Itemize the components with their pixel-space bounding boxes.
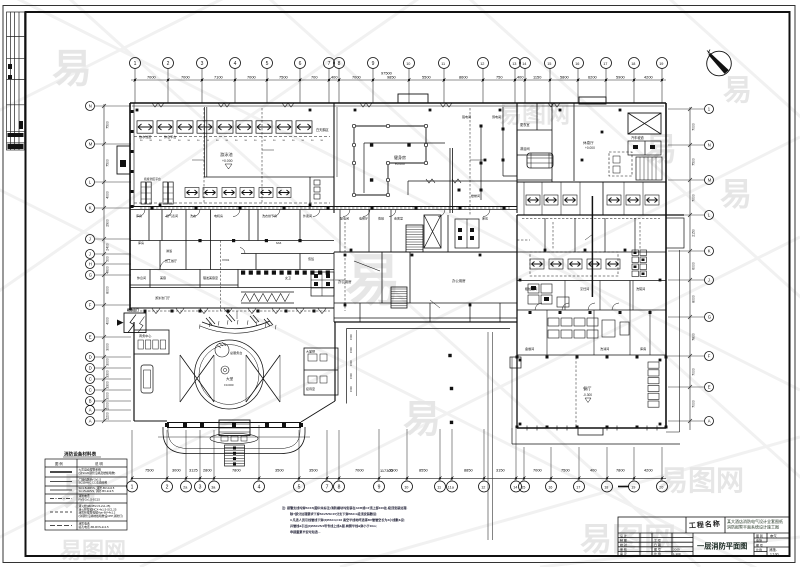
svg-text:D: D: [89, 355, 92, 360]
svg-text:A: A: [89, 419, 92, 424]
svg-text:90: 90: [178, 140, 181, 142]
svg-text:1: 1: [134, 61, 137, 67]
svg-text:易: 易: [723, 75, 752, 107]
svg-text:外卖间: 外卖间: [303, 213, 312, 218]
svg-text:易: 易: [720, 176, 752, 212]
svg-text:J: J: [89, 252, 91, 257]
entrance steps ladder: [225, 445, 245, 466]
svg-text:7000: 7000: [247, 75, 256, 80]
canopy side connectors: [134, 401, 335, 422]
sofa left: [141, 365, 153, 393]
svg-text:烹饪间: 烹饪间: [580, 286, 589, 291]
svg-text:楼梯间: 楼梯间: [471, 193, 480, 198]
svg-text:井管线&引出(3)BSC25/4号专线上线&层,两侧平线&穿: 井管线&引出(3)BSC25/4号专线上线&层,两侧平线&穿小于10m;: [290, 523, 377, 528]
svg-text:注: 报警支线均穿SC15(图中未标注)消防模块均安装在AC: 注: 报警支线均穿SC15(图中未标注)消防模块均安装在ACB或CZ顶上部100…: [282, 505, 407, 510]
axis bubble D left: [86, 353, 95, 362]
svg-text:疏散出口: 疏散出口: [127, 307, 139, 312]
svg-text:17: 17: [576, 485, 580, 489]
escalator X right: [246, 355, 280, 402]
lift equipment stack: [632, 250, 647, 277]
svg-text:400: 400: [517, 75, 524, 80]
svg-text:易: 易: [345, 249, 401, 312]
toilets zigzag partitions: [241, 292, 294, 303]
svg-text:7: 7: [326, 484, 329, 490]
svg-text:7800: 7800: [692, 333, 696, 341]
deco diagonal marks left: [206, 314, 273, 326]
svg-text:7000: 7000: [147, 75, 156, 80]
watermark yitunet logos: [60, 101, 744, 563]
title project name lines: [727, 518, 783, 530]
svg-text:商务中心: 商务中心: [139, 333, 151, 338]
axis bubble 12 bottom: [479, 481, 490, 492]
axis bubble 1 top: [130, 58, 141, 69]
svg-text:16: 16: [575, 62, 579, 66]
axis bubble H left: [86, 260, 95, 269]
svg-text:7500: 7500: [145, 468, 154, 473]
svg-text:配电间: 配电间: [340, 216, 349, 221]
svg-text:4200: 4200: [644, 75, 653, 80]
svg-text:大堂: 大堂: [226, 376, 234, 381]
svg-text:1500: 1500: [349, 386, 353, 392]
svg-text:A: A: [708, 419, 711, 424]
svg-text:7800: 7800: [232, 468, 241, 473]
axis bubble K left: [86, 204, 95, 213]
canopy outer rounded outline: [163, 427, 305, 454]
svg-text:90: 90: [292, 140, 295, 142]
band4 pool lobby: [130, 288, 334, 313]
svg-text:700: 700: [311, 75, 318, 80]
svg-text:G: G: [89, 273, 92, 278]
svg-text:强电间: 强电间: [462, 114, 471, 119]
axis bubble 19 top: [657, 58, 668, 69]
svg-text:400: 400: [590, 468, 597, 473]
lobby circle pattern: [195, 340, 264, 409]
svg-text:3000: 3000: [106, 358, 110, 366]
kitchen fan-coil row: [530, 259, 544, 269]
svg-text:G: G: [708, 315, 711, 320]
svg-text:K: K: [708, 249, 711, 254]
bottom extension lines: [132, 425, 662, 482]
title block table: [618, 517, 790, 556]
svg-text:5500: 5500: [422, 75, 431, 80]
svg-text:库房: 库房: [138, 240, 144, 245]
svg-text:女卫: 女卫: [285, 275, 291, 280]
locker benches group 1: [141, 182, 173, 204]
top dimension numbers: [147, 71, 653, 80]
svg-text:8600: 8600: [459, 75, 468, 80]
kitchen mid dividers: [547, 281, 650, 356]
top axis dimension line: [131, 68, 666, 103]
axis bubble K right: [705, 247, 714, 256]
axis bubble J left: [86, 250, 95, 259]
axis bubble 11 top: [439, 58, 450, 69]
svg-text:7500: 7500: [106, 159, 110, 167]
axis bubble M right: [705, 176, 714, 185]
svg-text:6000: 6000: [692, 262, 696, 270]
pool dashed zone lines: [134, 137, 330, 204]
axis bubble 3 bottom: [195, 481, 206, 492]
svg-text:备餐间: 备餐间: [525, 346, 534, 351]
svg-text:3125: 3125: [189, 468, 198, 473]
svg-text:白天鹅区: 白天鹅区: [316, 127, 330, 132]
axis bubble E left: [86, 333, 95, 342]
axis bubble 7 bottom: [322, 481, 333, 492]
right terrace edge line: [666, 250, 680, 432]
svg-text:F: F: [89, 303, 92, 308]
middle corridor wall y252: [334, 251, 517, 253]
svg-text:90: 90: [216, 140, 219, 142]
svg-text:12: 12: [480, 62, 484, 66]
outer left wall: [129, 103, 131, 310]
svg-text:更衣室: 更衣室: [520, 122, 530, 127]
axis bubble L right: [705, 211, 714, 220]
svg-text:比例: 比例: [756, 547, 762, 552]
svg-text:90: 90: [140, 140, 143, 142]
svg-text:2: 2: [166, 484, 169, 490]
svg-text:4600: 4600: [106, 266, 110, 274]
svg-text:H: H: [89, 262, 92, 267]
svg-text:90: 90: [264, 140, 267, 142]
axis bubble 14 top: [520, 58, 531, 69]
gym wiring loop: [354, 126, 426, 195]
canopy inner outline: [168, 427, 300, 449]
svg-text:+0.000: +0.000: [585, 146, 595, 150]
svg-text:M: M: [89, 142, 93, 147]
svg-text:4000: 4000: [106, 317, 110, 325]
svg-text:K: K: [89, 206, 92, 211]
axis bubble G right: [705, 313, 714, 322]
svg-text:E: E: [708, 385, 711, 390]
stair core: [406, 225, 423, 252]
north arrow: [707, 50, 732, 76]
axis bubble C left: [86, 386, 95, 395]
svg-text:15: 15: [547, 62, 551, 66]
svg-text:2800: 2800: [203, 468, 212, 473]
svg-text:-0.300: -0.300: [583, 393, 592, 397]
courtyard boundary: [347, 329, 511, 404]
axis bubble 2a bottom: [181, 481, 192, 492]
svg-text:750: 750: [496, 75, 503, 80]
axis bubble 16 top: [573, 58, 584, 69]
svg-text:图 例: 图 例: [55, 461, 63, 466]
svg-text:15: 15: [521, 485, 525, 489]
svg-text:值班: 值班: [308, 256, 314, 261]
svg-text:美容: 美容: [160, 275, 166, 280]
svg-text:90: 90: [150, 140, 153, 142]
notes text: [282, 505, 407, 534]
kitchen west wall: [516, 215, 518, 428]
middle big rooms: [334, 215, 517, 322]
svg-text:±0.000: ±0.000: [224, 383, 234, 387]
reception curved band: [202, 321, 270, 329]
axis bubble 11a bottom: [447, 481, 458, 492]
svg-text:19: 19: [631, 485, 635, 489]
svg-text:J: J: [89, 237, 91, 242]
axis bubble 5 top: [262, 58, 273, 69]
svg-text:97500: 97500: [381, 71, 393, 76]
lobby center feature: [221, 366, 229, 374]
svg-text:电施: 电施: [756, 538, 762, 543]
top vestibule bump 1: [398, 94, 428, 103]
svg-text:5: 5: [298, 484, 301, 490]
svg-text:C: C: [89, 377, 92, 382]
svg-text:3000: 3000: [172, 468, 181, 473]
bottom strip rooms middle: [360, 303, 500, 322]
svg-text:B: B: [89, 399, 92, 404]
axis bubble 15 bottom: [519, 481, 530, 492]
axis bubble 17 top: [601, 58, 612, 69]
svg-text:90: 90: [235, 140, 238, 142]
svg-text:休息厅: 休息厅: [583, 140, 594, 145]
svg-text:5900: 5900: [616, 75, 625, 80]
dining window ticks: [527, 426, 657, 431]
left dimension numbers: [106, 121, 110, 420]
svg-text:理发美容室: 理发美容室: [203, 275, 218, 280]
pool deck double wall: [205, 107, 207, 177]
axis bubble N left: [86, 102, 95, 111]
svg-text:易: 易: [52, 47, 92, 91]
svg-text:库房: 库房: [640, 346, 646, 351]
svg-text:总服务台: 总服务台: [230, 350, 242, 355]
gym inner wiring line: [364, 142, 445, 144]
dining wiring dash: [575, 357, 577, 427]
right fan-coil room: [526, 195, 540, 205]
elevator shaft X: [424, 215, 441, 248]
svg-text:5800: 5800: [560, 75, 569, 80]
axis bubble 19 bottom: [629, 481, 640, 492]
svg-text:13: 13: [512, 62, 516, 66]
svg-text:7500: 7500: [561, 468, 570, 473]
svg-text:90: 90: [197, 140, 200, 142]
svg-text:1500: 1500: [349, 373, 353, 379]
canopy columns: [165, 423, 303, 427]
svg-text:90: 90: [273, 140, 276, 142]
svg-text:煤气表间: 煤气表间: [166, 213, 178, 218]
axis bubble F right: [705, 352, 714, 361]
svg-text:F: F: [708, 354, 711, 359]
axis bubble 2 bottom: [162, 481, 173, 492]
courtyard column dots: [448, 354, 453, 424]
svg-text:办公用房: 办公用房: [452, 278, 466, 283]
wall y182 right block: [517, 181, 666, 183]
svg-text:90: 90: [188, 140, 191, 142]
svg-text:XX01: XX01: [222, 258, 230, 262]
fire wiring vertical risers: [204, 108, 640, 311]
svg-text:汽车坡道: 汽车坡道: [631, 135, 645, 140]
svg-text:(穿SC20钢管沿墙及楼板暗敷): (穿SC20钢管沿墙及楼板暗敷): [79, 471, 116, 475]
svg-text:易: 易: [403, 399, 441, 441]
svg-text:图 别: 图 别: [756, 533, 763, 538]
axis bubble J left: [86, 235, 95, 244]
pool east service column: [309, 177, 311, 209]
svg-text:11a: 11a: [448, 485, 455, 489]
axis bubble 1 bottom: [127, 481, 138, 492]
dining hall bottom wall: [517, 427, 666, 429]
svg-text:4: 4: [234, 61, 237, 67]
pool deck edge: [204, 176, 334, 178]
axis bubble 11 bottom: [435, 481, 446, 492]
axis bubble 3a bottom: [209, 481, 220, 492]
svg-text:2150: 2150: [692, 229, 696, 237]
left strip text marks: [8, 64, 24, 149]
axis bubble 16 bottom: [546, 481, 557, 492]
axis bubble C left: [86, 375, 95, 384]
svg-text:3000: 3000: [106, 392, 110, 400]
axis bubble J right: [705, 276, 714, 285]
svg-text:3: 3: [201, 61, 204, 67]
svg-text:2a: 2a: [183, 485, 188, 489]
exit arrow triangle: [117, 320, 124, 326]
door diagonal: [354, 261, 380, 271]
gym loop detector nodes: [352, 124, 427, 196]
svg-text:7: 7: [328, 61, 331, 67]
axis bubble N right: [705, 141, 714, 150]
gym detectors: [370, 143, 411, 181]
svg-text:7100: 7100: [214, 75, 223, 80]
pool west column strip: [133, 103, 135, 207]
svg-text:休息间: 休息间: [137, 275, 146, 280]
service rooms row 1: [130, 210, 334, 270]
svg-text:3.凡选人员引线管线下穿(2)BSC4,C16 高空平线地坪: 3.凡选人员引线管线下穿(2)BSC4,C16 高空平线地坪选择BV管管空长为4…: [290, 517, 405, 522]
svg-text:审 核: 审 核: [620, 547, 627, 552]
svg-text:健身房: 健身房: [394, 154, 406, 160]
svg-text:易图网: 易图网: [498, 101, 570, 128]
svg-text:日 期: 日 期: [654, 542, 661, 547]
axis bubble 18 bottom: [602, 481, 613, 492]
svg-text:19: 19: [659, 62, 663, 66]
lobby west wall: [133, 322, 135, 421]
axis bubble 9 bottom: [374, 481, 385, 492]
svg-text:16: 16: [548, 485, 552, 489]
changing rooms walls: [517, 103, 574, 182]
dining door notch: [578, 428, 603, 435]
watermark yi glyphs: [52, 47, 752, 514]
svg-text:洗衣: 洗衣: [190, 213, 196, 218]
smoke detectors lobby corridor: [144, 310, 316, 313]
left margin strip table: [7, 12, 26, 150]
bottom axis dimension line: [131, 476, 667, 480]
kitchen walls: [517, 252, 666, 355]
svg-text:1: 1: [708, 107, 711, 112]
svg-text:14: 14: [513, 485, 517, 489]
svg-text:7000: 7000: [692, 123, 696, 131]
svg-text:18: 18: [604, 485, 608, 489]
pool fan dim marks row: [140, 140, 324, 142]
axis bubble 9 top: [368, 58, 379, 69]
svg-text:M: M: [708, 178, 712, 183]
svg-text:申报重复平安可知选...: 申报重复平安可知选...: [290, 529, 321, 534]
svg-text:2900: 2900: [106, 219, 110, 227]
svg-text:4000: 4000: [106, 191, 110, 199]
pool room label row: [139, 134, 176, 139]
axis bubble A right: [705, 417, 714, 426]
svg-text:10: 10: [404, 485, 408, 489]
svg-text:90: 90: [283, 140, 286, 142]
right step terrace box: [666, 218, 684, 248]
svg-text:L: L: [89, 180, 92, 185]
gym south wall with windows: [408, 180, 517, 182]
svg-text:90: 90: [159, 140, 162, 142]
svg-text:1150: 1150: [533, 75, 542, 80]
svg-text:10: 10: [406, 62, 410, 66]
svg-text:2009: 2009: [673, 548, 680, 552]
middle top room dividers: [340, 210, 391, 253]
axis bubble 6 top: [295, 58, 306, 69]
svg-text:N: N: [89, 104, 92, 109]
svg-text:弱电间: 弱电间: [492, 114, 501, 119]
svg-text:员工餐厅: 员工餐厅: [165, 258, 177, 263]
svg-text:淋浴: 淋浴: [166, 248, 172, 253]
canopy band: [167, 423, 301, 428]
svg-text:消防报警平面系统设计施工图: 消防报警平面系统设计施工图: [727, 524, 779, 530]
svg-text:500: 500: [106, 256, 110, 262]
svg-text:90: 90: [254, 140, 257, 142]
escalator X left: [180, 355, 214, 402]
axis bubble G left: [86, 271, 95, 280]
svg-text:90: 90: [245, 140, 248, 142]
svg-text:7000: 7000: [355, 468, 364, 473]
svg-text:3150: 3150: [496, 468, 505, 473]
reception band hatches: [199, 320, 276, 329]
svg-text:1500: 1500: [349, 360, 353, 366]
svg-text:20: 20: [659, 485, 663, 489]
courtyard dim chain: [355, 330, 357, 396]
driveway ellipse island: [210, 433, 258, 443]
svg-text:除?部分处理要求下穿SC25/SC15分支下穿BSC4,吸顶: 除?部分处理要求下穿SC25/SC15分支下穿BSC4,吸顶安装敷设;: [290, 511, 377, 516]
svg-text:3000: 3000: [106, 343, 110, 351]
svg-text:2200: 2200: [106, 412, 110, 420]
legend description text: [79, 468, 123, 529]
svg-text:7800: 7800: [616, 468, 625, 473]
axis bubble 12 top: [478, 58, 489, 69]
electrical rooms walls: [450, 148, 453, 213]
svg-text:设 计: 设 计: [620, 533, 627, 538]
middle strip lower wall: [334, 317, 517, 319]
svg-text:洗碗间: 洗碗间: [636, 286, 645, 291]
band2 door arcs: [160, 248, 245, 270]
axis bubble 2 top: [163, 58, 174, 69]
svg-text:7500: 7500: [692, 158, 696, 166]
axis bubble 10 top: [404, 58, 415, 69]
svg-text:餐厅: 餐厅: [583, 385, 591, 392]
svg-text:库房: 库房: [482, 216, 488, 221]
axis bubble B left: [86, 397, 95, 406]
svg-text:8850: 8850: [464, 468, 473, 473]
svg-text:90: 90: [321, 140, 324, 142]
wall gym east: [516, 103, 518, 213]
svg-text:17: 17: [603, 62, 607, 66]
svg-text:J: J: [708, 278, 710, 283]
svg-text:8550: 8550: [419, 468, 428, 473]
right fan cell dividers: [524, 182, 643, 215]
svg-text:一层消防平面图: 一层消防平面图: [697, 542, 747, 551]
svg-text:制 图: 制 图: [620, 537, 627, 542]
svg-text:按摩池区平台: 按摩池区平台: [144, 177, 161, 181]
dining NW corner step: [510, 357, 521, 368]
svg-text:2: 2: [167, 61, 170, 67]
title small cells text: [620, 533, 779, 557]
electrical room detectors: [458, 125, 505, 192]
svg-text:会客室: 会客室: [394, 216, 403, 221]
svg-text:8000: 8000: [692, 295, 696, 303]
axis bubble 14 bottom: [511, 481, 522, 492]
axis bubble 4 bottom: [254, 481, 265, 492]
detectors misc points: [136, 109, 662, 426]
svg-text:D: D: [89, 366, 92, 371]
svg-text:1500: 1500: [349, 334, 353, 340]
svg-text:接待室: 接待室: [306, 386, 315, 391]
svg-text:14: 14: [522, 62, 526, 66]
